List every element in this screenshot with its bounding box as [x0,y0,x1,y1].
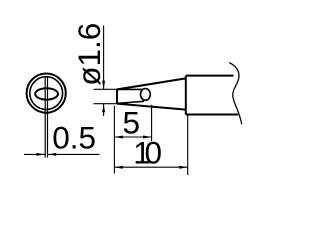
0.5 dimension line right segment [48,153,100,155]
5 dimension line [114,136,151,138]
sleeve top edge [186,75,234,77]
0.5 dimension line left segment [24,153,45,155]
chisel ground-face ellipse [141,89,151,101]
sleeve bottom edge [186,114,238,116]
cone top edge [117,78,186,89]
cone bottom edge [117,104,186,110]
right extension line for 10 [187,116,189,176]
dia 1.6 bottom extension line [94,103,118,105]
chisel flat top line [117,88,143,90]
end view inner circle (plating ring) [30,77,63,110]
dia 1.6 lower arrow (points up) [102,104,105,113]
svg-text:ø1.6: ø1.6 [71,23,107,86]
left extension line for 5 and 10 [113,106,115,174]
0.5 right arrow [48,153,57,156]
end view outer circle [27,74,66,113]
5 right arrow [143,136,152,139]
svg-text:0: 0 [145,134,163,170]
right extension line for 5 [151,105,153,141]
chisel edge right line (end view) [47,77,49,158]
end view bevel ellipse [35,88,58,99]
svg-text:0.5: 0.5 [52,120,96,156]
10 right arrow [179,166,188,169]
10 left arrow [114,166,123,169]
break line [229,63,242,125]
10 dimension line [114,166,187,168]
0.5 left arrow [36,153,45,156]
chisel edge left line (end view) [44,77,46,158]
dia 1.6 dimension line upper segment [103,26,105,90]
tip front edge [116,89,118,103]
dia 1.6 top extension line [94,88,118,90]
dia 1.6 dimension line lower segment [103,104,105,116]
shoulder step [185,76,187,115]
dia 1.6 upper arrow (points down) [102,81,105,90]
5 left arrow [114,136,123,139]
chisel flat bottom line [117,101,144,103]
